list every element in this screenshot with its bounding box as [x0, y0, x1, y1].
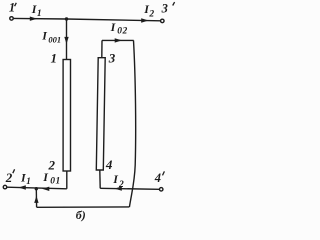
svg-text:02: 02: [117, 26, 128, 36]
wire bar 2 bottom down: [66, 171, 68, 189]
svg-text:б): б): [76, 208, 86, 222]
wire bottom-left rail: [7, 187, 67, 189]
svg-text:1: 1: [37, 9, 42, 19]
terminal 4': [159, 188, 163, 192]
winding bar 3-4: [96, 58, 105, 170]
arrow I01 left-pointing: [42, 187, 49, 191]
winding bar 1-2: [63, 60, 70, 172]
wire rail to 4': [100, 188, 159, 189]
wire loop right vertical: [129, 40, 135, 207]
wire junction to bar 1: [66, 19, 68, 60]
wire loop left vertical to bar 3: [101, 40, 103, 58]
arrow I1 bottom left-pointing: [19, 185, 26, 189]
terminal 1': [10, 17, 14, 21]
svg-text:3: 3: [161, 1, 168, 15]
wire top rail left: [14, 17, 67, 20]
svg-text:01: 01: [50, 177, 61, 187]
arrow up bottom leg: [34, 196, 38, 203]
arrow I001 down-pointing: [64, 37, 68, 44]
wire bottom rail: [37, 206, 130, 208]
arrow I02 right-pointing: [115, 38, 122, 42]
terminal 2': [3, 185, 7, 189]
svg-text:4: 4: [105, 157, 113, 172]
arrow I2 bottom left-pointing: [115, 186, 122, 190]
svg-text:1: 1: [51, 51, 58, 66]
svg-text:2: 2: [148, 9, 154, 19]
svg-text:1: 1: [9, 1, 15, 15]
svg-text:2: 2: [48, 157, 56, 172]
svg-text:001: 001: [48, 34, 61, 44]
svg-text:4: 4: [154, 171, 161, 185]
arrow I1 top right-pointing: [30, 17, 37, 21]
junction dot bottom: [35, 187, 38, 190]
svg-text:2: 2: [5, 170, 13, 185]
arrow I2 top right-pointing: [141, 18, 148, 22]
wire bar 4 bottom down: [99, 170, 101, 188]
svg-text:1: 1: [26, 176, 31, 186]
terminal 3': [161, 19, 165, 23]
svg-text:2: 2: [118, 180, 124, 190]
junction dot top: [65, 17, 68, 20]
svg-text:3: 3: [108, 51, 116, 66]
wire junction down leg: [35, 189, 37, 208]
wire loop horizontal: [102, 39, 134, 41]
wire top rail right: [67, 19, 161, 21]
